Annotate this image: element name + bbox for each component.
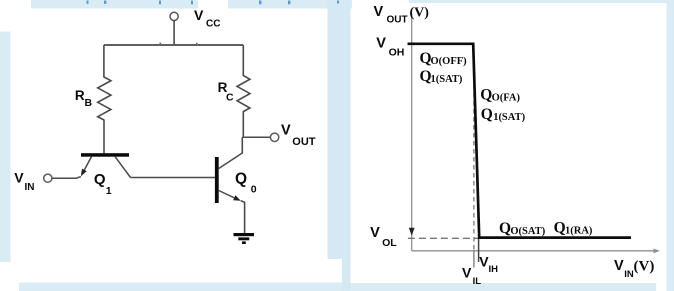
VIH line below axis [478, 238, 480, 262]
label RC [218, 80, 234, 104]
svg-text:1(SAT): 1(SAT) [431, 74, 463, 85]
Q1 emitter [82, 157, 92, 175]
svg-text:Q: Q [94, 171, 106, 188]
wire top rail [104, 44, 243, 46]
svg-text:1(SAT): 1(SAT) [493, 112, 525, 123]
Q1 label [94, 171, 112, 197]
svg-text:0: 0 [251, 184, 257, 196]
svg-text:R: R [75, 88, 85, 103]
wire Q0 emitter to ground [241, 201, 245, 233]
svg-text:OUT: OUT [292, 136, 316, 148]
svg-text:Q: Q [554, 220, 566, 237]
svg-text:V: V [281, 123, 291, 139]
svg-text:V: V [374, 4, 384, 20]
svg-text:OUT: OUT [387, 15, 408, 26]
wire RC to Vout node [242, 111, 244, 137]
ground [234, 233, 255, 244]
svg-text:Q: Q [235, 171, 247, 188]
x axis [412, 250, 656, 252]
svg-text:(V): (V) [634, 259, 655, 275]
Vout axis label [374, 4, 430, 26]
svg-text:Q: Q [480, 87, 492, 104]
Q state label Q1(SAT) [420, 68, 463, 85]
svg-text:V: V [462, 265, 472, 281]
VIH label [479, 253, 498, 275]
wire left drop to RB [103, 45, 105, 78]
svg-text:V: V [14, 170, 24, 186]
Vout terminal [270, 133, 278, 141]
svg-text:O(SAT): O(SAT) [510, 226, 545, 237]
Vcc label [194, 7, 220, 29]
svg-text:Q: Q [481, 106, 493, 123]
svg-text:IH: IH [489, 264, 499, 275]
Q1 collector [115, 157, 131, 178]
Vin axis label [614, 258, 654, 280]
svg-text:V: V [614, 258, 624, 274]
VOL label [370, 225, 397, 249]
down arrow on y axis at VOL [409, 228, 415, 236]
VOH label [376, 35, 404, 58]
resistor RC [237, 76, 250, 112]
wire Q0 collector to Vout node [241, 137, 243, 153]
svg-text:V: V [194, 7, 204, 23]
Vout label [281, 123, 316, 148]
svg-text:O(OFF): O(OFF) [431, 56, 468, 67]
svg-text:C: C [226, 92, 234, 104]
VIL line below axis [473, 250, 475, 267]
wire RB to Q1 base [103, 120, 105, 154]
label RB [75, 88, 93, 109]
svg-text:CC: CC [206, 18, 220, 29]
transistor Q0 base bar [215, 157, 219, 203]
svg-text:V: V [376, 35, 386, 51]
svg-text:OH: OH [389, 47, 405, 59]
transfer curve VOH segment [408, 44, 632, 238]
Q state label Q1(SAT) mid [481, 106, 526, 123]
wire Q1 collector to Q0 base [131, 177, 215, 179]
svg-text:OL: OL [382, 237, 397, 249]
svg-text:Q: Q [499, 220, 511, 237]
VIL dashed vertical line [473, 45, 475, 250]
VOL dashed level line [408, 237, 478, 239]
svg-text:IL: IL [473, 276, 482, 287]
Q state label Qo(OFF) [420, 50, 468, 67]
Vin terminal [44, 174, 52, 182]
svg-text:IN: IN [25, 182, 35, 193]
Q state label Q1(RA) [554, 220, 593, 237]
wire right drop from rail to RC [242, 45, 244, 76]
svg-text:V: V [370, 225, 380, 241]
Q0 emitter [219, 191, 239, 200]
Vcc terminal [170, 12, 178, 20]
wire Q1 emitter to Vin [52, 177, 81, 179]
Q0 label [235, 171, 257, 196]
Q state label Qo(FA) [480, 87, 520, 104]
transistor Q1 base bar [81, 153, 129, 157]
svg-text:B: B [85, 97, 93, 109]
Q state label Qo(SAT) [499, 220, 546, 237]
VIL label [462, 265, 481, 288]
svg-text:1(RA): 1(RA) [565, 226, 593, 237]
svg-text:O(FA): O(FA) [492, 93, 521, 104]
svg-text:1: 1 [106, 185, 112, 197]
wire Vout node to terminal [242, 136, 270, 138]
junction tick marks on rail [160, 43, 162, 46]
Q0 collector [219, 153, 243, 169]
svg-text:(V): (V) [410, 6, 430, 21]
Vin label [14, 170, 34, 194]
resistor RB [98, 77, 111, 120]
y axis [411, 14, 413, 251]
x axis arrowhead [654, 249, 660, 254]
wire Vcc stem [173, 21, 175, 45]
svg-text:IN: IN [624, 269, 634, 280]
